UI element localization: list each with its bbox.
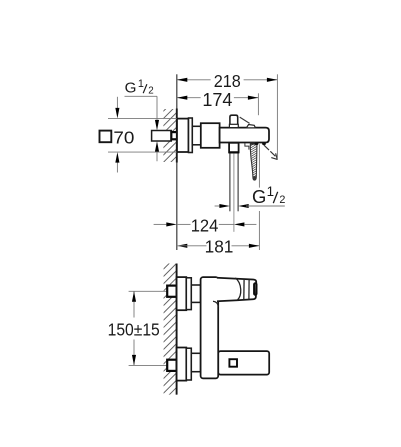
label G1/2 (bottom, shower outlet) with small dimension: [215, 184, 286, 208]
dimension 124: [154, 215, 257, 236]
wall face line (bottom view): [176, 264, 178, 395]
supply pipe channel G1/2 (top view): [152, 131, 172, 142]
svg-text:181: 181: [205, 236, 234, 256]
hose end cap: [253, 176, 256, 180]
handle arm (bottom view): [217, 278, 256, 301]
square symbol: [100, 131, 112, 143]
handle neck arc: [235, 278, 240, 300]
label G1/2 (top, supply): [125, 78, 160, 161]
hose texture: [250, 139, 259, 179]
svg-text:150±15: 150±15: [108, 320, 160, 340]
supply line upper (ext line 150 dim): [129, 290, 168, 292]
svg-text:70: 70: [113, 127, 134, 147]
svg-text:1: 1: [267, 184, 274, 199]
neck upper: [191, 285, 200, 302]
supply line lower (ext line 150 dim): [129, 364, 168, 366]
escutcheon upper (bottom view): [177, 277, 187, 310]
svg-text:G: G: [252, 186, 266, 207]
svg-text:174: 174: [202, 90, 232, 110]
shower outlet block (top view): [229, 143, 239, 153]
wall hatching (bottom view): [160, 236, 182, 419]
svg-text:2: 2: [279, 194, 285, 206]
spout (top view): shower hose: [245, 143, 249, 150]
svg-text:124: 124: [191, 215, 219, 236]
handle stem (top view): [230, 115, 238, 127]
shower outlet bottom edge (bold): [229, 151, 240, 153]
handle cap line 2: [248, 279, 250, 299]
shower outlet centerline: [233, 153, 235, 231]
spout square detail (bold): [229, 359, 237, 367]
dimension 181: [177, 211, 260, 257]
escutcheon ring upper: [186, 278, 191, 310]
valve block (top view): [201, 123, 220, 148]
shower outlet pipe lines: [229, 153, 231, 211]
wall face line (top view): [176, 74, 178, 108]
supply pipe square lower (bold): [167, 360, 176, 371]
dimension 218: [177, 71, 278, 160]
neck (top view): [192, 126, 201, 145]
dimension 174: [177, 90, 259, 115]
body tube (top view): [220, 128, 269, 143]
escutcheon ring (top view): [189, 118, 193, 153]
supply pipe square upper (bold): [167, 286, 176, 297]
supply pipe nipple (bold, top view): [171, 132, 177, 139]
neck lower: [191, 353, 200, 371]
spout extension line: [258, 144, 260, 187]
svg-text:G: G: [125, 80, 137, 97]
dimension 150±15: [108, 291, 160, 365]
svg-text:1: 1: [138, 78, 144, 90]
escutcheon lower (bottom view): [177, 348, 187, 381]
escutcheon flange (top view): [177, 119, 189, 152]
hose top fitting (dark): [250, 143, 257, 145]
dashed pointer arrow: [264, 145, 276, 157]
body (bottom view): [201, 277, 219, 378]
spout (bottom view): [218, 351, 269, 375]
spout mounting dots: [255, 142, 259, 145]
wall hatching (top view): [160, 78, 182, 188]
handle cap line: [243, 279, 245, 300]
handle lever (top view): [240, 117, 250, 123]
svg-text:2: 2: [148, 86, 153, 97]
svg-text:218: 218: [214, 71, 241, 91]
escutcheon ring lower: [186, 348, 191, 380]
handle end inset (bold): [254, 283, 256, 295]
dimension 70 (square escutcheon): [100, 97, 177, 173]
fillet under arm: [213, 301, 218, 307]
